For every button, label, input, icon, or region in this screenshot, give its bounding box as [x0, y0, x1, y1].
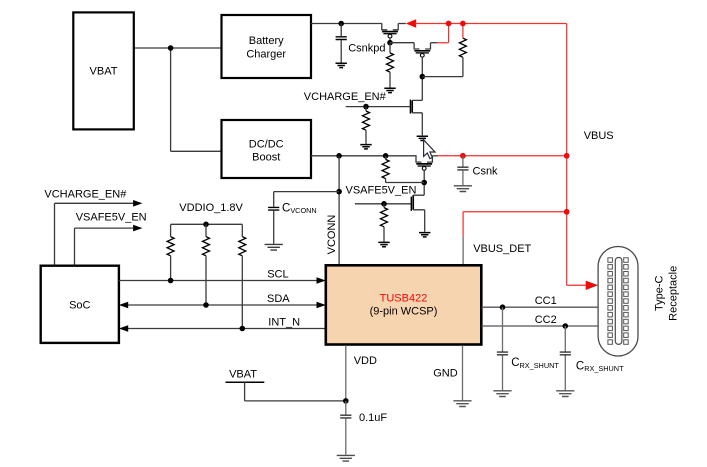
svg-text:SDA: SDA: [267, 293, 290, 305]
svg-text:VBUS_DET: VBUS_DET: [473, 243, 531, 255]
svg-text:CC2: CC2: [535, 314, 557, 326]
svg-text:Battery: Battery: [249, 35, 284, 47]
svg-text:VCHARGE_EN#: VCHARGE_EN#: [304, 91, 387, 103]
svg-text:VSAFE5V_EN: VSAFE5V_EN: [76, 212, 147, 224]
svg-text:Csnkpd: Csnkpd: [348, 42, 385, 54]
svg-text:Csnk: Csnk: [473, 166, 499, 178]
svg-text:DC/DC: DC/DC: [249, 138, 284, 150]
svg-text:VBUS: VBUS: [584, 130, 614, 142]
svg-text:INT_N: INT_N: [268, 316, 300, 328]
svg-text:SCL: SCL: [267, 268, 288, 280]
svg-text:GND: GND: [433, 368, 458, 380]
svg-text:Type-C: Type-C: [654, 276, 666, 312]
svg-text:Boost: Boost: [252, 151, 280, 163]
svg-text:Charger: Charger: [246, 48, 286, 60]
svg-text:VDDIO_1.8V: VDDIO_1.8V: [179, 202, 243, 214]
svg-text:VBAT: VBAT: [229, 369, 257, 381]
svg-text:VCONN: VCONN: [326, 215, 338, 255]
svg-text:TUSB422: TUSB422: [380, 292, 428, 304]
svg-text:VDD: VDD: [354, 355, 377, 367]
svg-text:VCHARGE_EN#: VCHARGE_EN#: [44, 189, 127, 201]
svg-text:VBAT: VBAT: [90, 66, 118, 78]
svg-text:CC1: CC1: [535, 295, 557, 307]
svg-text:Receptacle: Receptacle: [668, 266, 680, 321]
svg-text:(9-pin WCSP): (9-pin WCSP): [370, 306, 438, 318]
svg-text:VSAFE5V_EN: VSAFE5V_EN: [346, 185, 417, 197]
svg-text:SoC: SoC: [69, 300, 90, 312]
svg-text:0.1uF: 0.1uF: [359, 412, 387, 424]
